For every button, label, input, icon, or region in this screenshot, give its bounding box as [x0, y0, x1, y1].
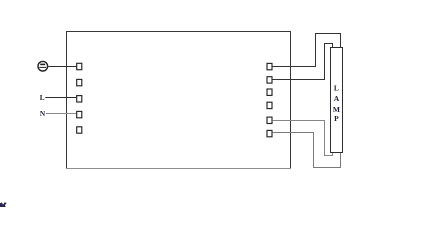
svg-text:N: N — [40, 109, 46, 118]
svg-text:L: L — [334, 84, 339, 93]
ballast box U1 — [67, 32, 291, 169]
svg-text:L: L — [40, 93, 45, 102]
left terminal 3 — [77, 96, 82, 102]
right terminal 1 — [267, 63, 272, 69]
wire W2 right terminal 2 to lamp top pin 1 — [272, 44, 332, 80]
svg-text:P: P — [334, 114, 339, 123]
right terminal 6 — [267, 130, 272, 136]
left terminal 5 — [77, 127, 82, 133]
left terminal 1 — [77, 63, 82, 69]
artifact glyph bottom-left corner — [0, 202, 7, 207]
left terminal 2 — [77, 79, 82, 85]
svg-text:A: A — [334, 94, 340, 103]
wire W6 right terminal 6 to lamp bottom pin 2 — [272, 133, 340, 168]
wire W1 right terminal 1 to lamp top pin 2 — [272, 34, 340, 67]
earth terminal symbol PE — [38, 61, 48, 71]
lamp label — [333, 84, 340, 123]
right terminal 2 — [267, 77, 272, 83]
wire N to terminal 4 — [46, 113, 77, 115]
wire earth to terminal 1 — [48, 66, 76, 68]
svg-text:M: M — [333, 105, 340, 114]
ballast box bottom edge — [67, 168, 291, 170]
right terminal 4 — [267, 102, 272, 108]
wire W5 right terminal 5 to lamp bottom pin 1 — [272, 121, 332, 156]
wire L to terminal 3 — [45, 97, 76, 99]
lamp tube — [331, 48, 343, 153]
right terminal 3 — [267, 89, 272, 95]
right terminal 5 — [267, 117, 272, 123]
left terminal 4 — [77, 111, 82, 117]
